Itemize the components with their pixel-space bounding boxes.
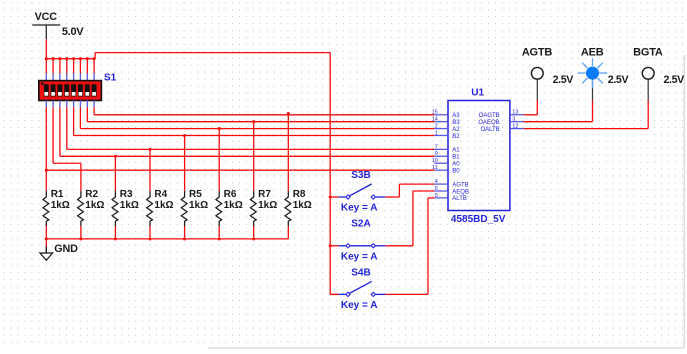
- value label R6 1k&#937;: [224, 200, 243, 211]
- wire VCC to key switches: [95, 53, 339, 295]
- pin 6 AEQB: [434, 186, 469, 195]
- junction VCC bus col6: [79, 57, 82, 60]
- pin 15 A3: [432, 110, 461, 119]
- svg-text:A2: A2: [452, 127, 460, 133]
- junction ground bus R5: [183, 237, 186, 240]
- dip switch S1: [39, 81, 102, 101]
- lamp AGTB: [531, 67, 543, 79]
- label R6: [224, 189, 237, 200]
- ground GND: [40, 243, 78, 260]
- svg-text:GND: GND: [54, 243, 78, 255]
- svg-text:A0: A0: [452, 162, 460, 168]
- value label R7 1k&#937;: [258, 200, 277, 211]
- value label R5 1k&#937;: [189, 200, 208, 211]
- wire S4B to pin 5: [385, 198, 434, 295]
- wire net column 8 horizontal: [94, 114, 434, 116]
- svg-text:S1: S1: [104, 72, 117, 83]
- value label R8 1k&#937;: [293, 200, 312, 211]
- wire R1 top feeder: [45, 170, 47, 191]
- label R2: [85, 189, 98, 200]
- svg-text:R1: R1: [51, 189, 64, 200]
- pin 4 AGTB: [434, 179, 468, 188]
- junction R7 tap: [252, 120, 255, 123]
- resistor R8: [285, 191, 291, 239]
- label R3: [120, 189, 133, 200]
- lamp BGTA: [642, 67, 654, 79]
- svg-text:S3B: S3B: [351, 170, 370, 181]
- svg-text:R3: R3: [120, 189, 133, 200]
- wire pin to lamp AGTB: [524, 100, 538, 115]
- svg-text:R4: R4: [154, 189, 167, 200]
- svg-text:14: 14: [432, 117, 438, 123]
- svg-text:1kΩ: 1kΩ: [154, 200, 173, 211]
- lamp AEB: [578, 59, 606, 87]
- junction S2A left: [329, 244, 332, 247]
- resistor R4: [147, 191, 153, 239]
- svg-text:R6: R6: [224, 189, 237, 200]
- svg-text:Key = A: Key = A: [341, 203, 378, 214]
- wire S1 bottom pin 5: [73, 100, 75, 135]
- svg-text:R7: R7: [258, 189, 271, 200]
- wire S1 top pin 7: [86, 59, 88, 81]
- wire S1 top pin 3: [59, 59, 61, 81]
- junction R1 tap: [45, 169, 48, 172]
- wire S1 bottom pin 1: [45, 100, 47, 170]
- junction VCC bus col2: [52, 57, 55, 60]
- svg-text:S4B: S4B: [351, 267, 370, 278]
- svg-text:10: 10: [432, 158, 438, 164]
- lamp AGTB lead: [536, 79, 538, 100]
- wire net column 3 horizontal: [60, 155, 434, 157]
- svg-text:AEQB: AEQB: [452, 189, 469, 195]
- svg-text:11: 11: [432, 165, 438, 171]
- svg-text:B3: B3: [452, 120, 460, 126]
- junction ground bus R7: [252, 237, 255, 240]
- svg-text:Key = A: Key = A: [341, 251, 378, 262]
- pin 12 OALTB: [480, 124, 523, 133]
- junction R5 tap: [183, 134, 186, 137]
- pin 14 B3: [432, 117, 461, 126]
- pin 7 A1: [434, 144, 460, 153]
- svg-text:OAEQB: OAEQB: [478, 120, 499, 126]
- junction S3B left: [329, 195, 332, 198]
- value label 2.5V AGTB: [553, 74, 574, 86]
- lamp BGTA lead: [647, 79, 649, 100]
- svg-text:5.0V: 5.0V: [62, 26, 84, 38]
- wire S1 top pin 5: [73, 59, 75, 81]
- junction VCC bus col1: [45, 57, 48, 60]
- svg-text:VCC: VCC: [35, 11, 58, 23]
- label S3B: [351, 170, 370, 181]
- value label 2.5V BGTA: [664, 74, 685, 86]
- junction ground bus R3: [114, 237, 117, 240]
- junction ground bus R1: [45, 237, 48, 240]
- power VCC: [32, 11, 60, 39]
- wire S3B to pin 4: [385, 184, 434, 197]
- junction VCC bus col4: [65, 57, 68, 60]
- svg-text:BGTA: BGTA: [633, 47, 663, 59]
- wire R5 top feeder: [184, 136, 186, 191]
- wire S1 bottom pin 6: [79, 100, 81, 128]
- svg-text:4: 4: [435, 179, 438, 185]
- svg-text:R2: R2: [85, 189, 98, 200]
- wire S1 bottom pin 3: [59, 100, 61, 156]
- svg-text:A1: A1: [452, 148, 460, 154]
- wire S1 top pin 2: [52, 59, 54, 81]
- label S2A: [351, 219, 370, 230]
- wire R3 top feeder: [114, 156, 116, 191]
- svg-text:1kΩ: 1kΩ: [120, 200, 139, 211]
- label U1: [471, 87, 484, 98]
- wire net column 6 horizontal: [80, 128, 434, 130]
- pin 2 A2: [434, 124, 460, 133]
- wire pin to lamp AEB: [524, 100, 593, 122]
- value label R1 1k&#937;: [51, 200, 70, 211]
- svg-text:1kΩ: 1kΩ: [224, 200, 243, 211]
- svg-text:2.5V: 2.5V: [664, 74, 685, 86]
- svg-text:5: 5: [435, 193, 438, 199]
- label Key = A (S2A): [341, 251, 378, 262]
- label BGTA: [633, 47, 663, 59]
- svg-text:B0: B0: [452, 169, 460, 175]
- svg-text:4585BD_5V: 4585BD_5V: [451, 214, 506, 225]
- junction VCC bus col5: [72, 57, 75, 60]
- wire R8 top feeder: [287, 115, 289, 191]
- label S1: [104, 72, 117, 83]
- svg-text:2: 2: [435, 124, 438, 130]
- resistor R2: [78, 191, 84, 239]
- svg-text:15: 15: [432, 110, 438, 116]
- label AEB: [581, 47, 604, 59]
- junction R6 tap: [218, 127, 221, 130]
- svg-text:B2: B2: [452, 134, 460, 140]
- wire S1 bottom pin 2: [52, 100, 54, 163]
- label AGTB: [522, 47, 553, 59]
- wire S1 top pin 8: [93, 59, 95, 81]
- svg-text:U1: U1: [471, 87, 484, 98]
- svg-text:OAGTB: OAGTB: [479, 113, 500, 119]
- resistor R6: [216, 191, 222, 239]
- svg-text:S2A: S2A: [351, 219, 370, 230]
- junction VCC bus col7: [86, 57, 89, 60]
- value label 2.5V AEB: [608, 74, 629, 86]
- junction R8 tap: [287, 112, 290, 115]
- pin 5 ALTB: [434, 193, 467, 202]
- value label R4 1k&#937;: [154, 200, 173, 211]
- svg-text:2.5V: 2.5V: [608, 74, 629, 86]
- wire S1 bottom pin 8: [93, 100, 95, 115]
- label S4B: [351, 267, 370, 278]
- junction VCC bus col8: [93, 57, 96, 60]
- pin 1 B2: [434, 130, 460, 139]
- svg-text:R8: R8: [293, 189, 306, 200]
- pin 13 OAGTB: [479, 110, 524, 119]
- svg-text:12: 12: [512, 124, 518, 130]
- value label R2 1k&#937;: [85, 200, 104, 211]
- value label 5.0V: [62, 26, 84, 38]
- wire S1 top pin 1: [45, 59, 47, 81]
- wire R4 top feeder: [149, 149, 151, 190]
- wire S2A to pin 6: [385, 191, 434, 246]
- label Key = A (S4B): [341, 300, 378, 311]
- sheet border: [208, 55, 684, 348]
- svg-text:A3: A3: [452, 113, 460, 119]
- wire net column 2 horizontal: [53, 162, 81, 164]
- svg-text:3: 3: [512, 117, 515, 123]
- pin 3 OAEQB: [478, 117, 523, 126]
- switch S2A: [330, 244, 385, 248]
- wire net column 7 horizontal: [87, 121, 434, 123]
- wire S1 bottom pin 4: [66, 100, 68, 149]
- resistor R5: [181, 191, 187, 239]
- svg-text:AEB: AEB: [581, 47, 604, 59]
- wire net column 5 horizontal: [74, 135, 435, 137]
- svg-text:1kΩ: 1kΩ: [51, 200, 70, 211]
- switch S4B: [330, 281, 385, 296]
- svg-text:6: 6: [435, 186, 438, 192]
- svg-text:1: 1: [435, 130, 438, 136]
- label R1: [51, 189, 64, 200]
- svg-text:7: 7: [435, 144, 438, 150]
- wire VCC bus: [46, 58, 95, 60]
- wire ground bus: [46, 238, 288, 240]
- junction R4 tap: [148, 148, 151, 151]
- label Key = A (S3B): [341, 203, 378, 214]
- svg-text:OALTB: OALTB: [480, 127, 499, 133]
- svg-text:1kΩ: 1kΩ: [85, 200, 104, 211]
- label R5: [189, 189, 202, 200]
- wire R7 top feeder: [253, 122, 255, 191]
- junction ground bus R2: [79, 237, 82, 240]
- switch S3B: [330, 184, 385, 199]
- pin 10 A0: [432, 158, 461, 167]
- junction ground bus R4: [148, 237, 151, 240]
- svg-text:9: 9: [435, 151, 438, 157]
- wire pin to lamp BGTA: [524, 100, 649, 129]
- wire S1 bottom pin 7: [86, 100, 88, 122]
- junction VCC bus col3: [58, 57, 61, 60]
- pin 11 B0: [432, 165, 460, 174]
- wire VCC drop: [45, 40, 47, 59]
- resistor R1: [43, 191, 49, 239]
- label R7: [258, 189, 271, 200]
- pin 9 B1: [434, 151, 460, 160]
- svg-text:ALTB: ALTB: [452, 196, 467, 202]
- lamp AEB lead: [592, 79, 594, 100]
- wire S1 top pin 6: [79, 59, 81, 81]
- resistor R7: [250, 191, 256, 239]
- resistor R3: [112, 191, 118, 239]
- svg-text:AGTB: AGTB: [522, 47, 553, 59]
- wire R2 top feeder: [80, 163, 82, 191]
- wire GND drop: [45, 239, 47, 247]
- junction R3 tap: [114, 155, 117, 158]
- svg-text:1kΩ: 1kΩ: [258, 200, 277, 211]
- svg-text:13: 13: [512, 110, 518, 116]
- svg-text:1kΩ: 1kΩ: [293, 200, 312, 211]
- op-amp U1 comparator 4585BD_5V box: [448, 101, 510, 211]
- svg-text:2.5V: 2.5V: [553, 74, 574, 86]
- svg-text:AGTB: AGTB: [452, 182, 468, 188]
- wire net column 4 horizontal: [67, 148, 435, 150]
- svg-text:Key = A: Key = A: [341, 300, 378, 311]
- wire R6 top feeder: [218, 129, 220, 191]
- label 4585BD_5V: [451, 214, 506, 225]
- label R4: [154, 189, 167, 200]
- value label R3 1k&#937;: [120, 200, 139, 211]
- svg-text:B1: B1: [452, 155, 460, 161]
- svg-text:1kΩ: 1kΩ: [189, 200, 208, 211]
- junction ground bus R6: [218, 237, 221, 240]
- label R8: [293, 189, 306, 200]
- svg-text:R5: R5: [189, 189, 202, 200]
- wire net column 1 horizontal: [46, 169, 434, 171]
- wire S1 top pin 4: [66, 59, 68, 81]
